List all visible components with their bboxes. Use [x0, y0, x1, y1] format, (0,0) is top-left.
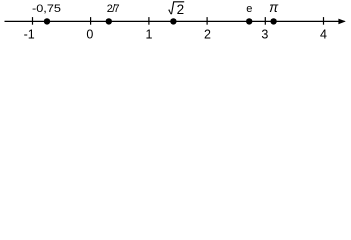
svg-text:2: 2 — [204, 28, 211, 42]
svg-text:0: 0 — [86, 28, 93, 42]
svg-text:-0,75: -0,75 — [32, 3, 61, 15]
svg-text:7: 7 — [114, 3, 120, 15]
svg-text:π: π — [269, 0, 279, 15]
svg-text:2: 2 — [177, 2, 185, 17]
svg-text:4: 4 — [320, 28, 327, 42]
svg-text:e: e — [246, 3, 252, 15]
svg-text:1: 1 — [146, 28, 153, 42]
svg-text:3: 3 — [261, 28, 268, 42]
svg-text:-1: -1 — [24, 28, 35, 42]
